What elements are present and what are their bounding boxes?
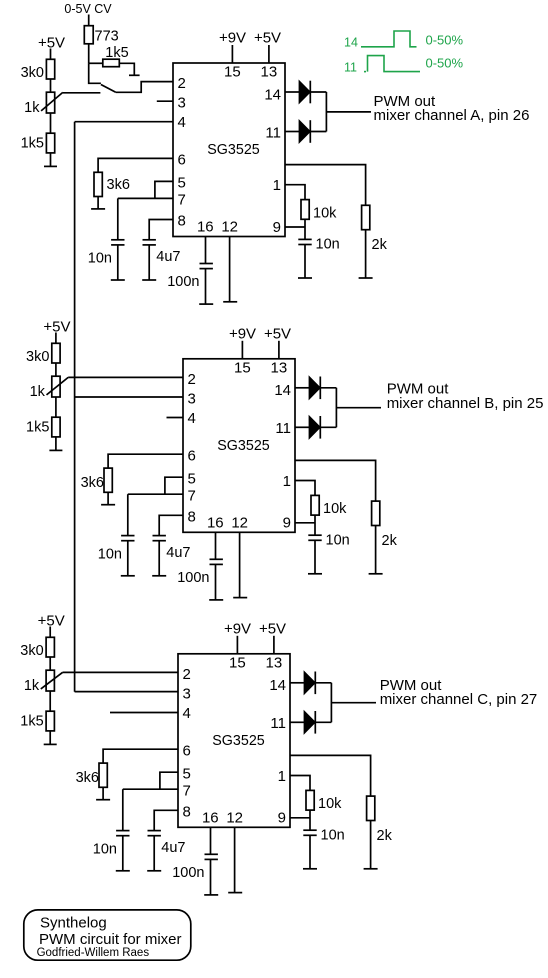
capacitor 100n (channel C) (205, 853, 218, 855)
svg-text:+9V: +9V (224, 620, 251, 637)
potentiometer 1k (channel C) (46, 670, 54, 691)
svg-text:13: 13 (261, 64, 278, 81)
wire (320, 387, 336, 389)
wire pin 11 (290, 721, 304, 723)
waveform pin 14 pulse (361, 31, 417, 47)
wire (310, 91, 326, 93)
potentiometer 1k wiper arrow (channel B) (47, 377, 69, 395)
resistor 2k (channel B) (372, 501, 380, 525)
wire (158, 541, 160, 576)
wire (117, 245, 119, 280)
svg-text:100n: 100n (177, 570, 209, 586)
wire CV bus to pin 3 (75, 396, 183, 398)
capacitor 100n (channel A) (200, 263, 213, 265)
ground (49, 449, 62, 451)
wire diode outputs join (335, 388, 337, 428)
wire diode outputs join (325, 92, 327, 132)
svg-text:10k: 10k (318, 796, 342, 812)
wire (55, 397, 57, 417)
svg-text:10n: 10n (326, 532, 350, 548)
wire (89, 62, 103, 64)
svg-text:mixer channel C, pin 27: mixer channel C, pin 27 (380, 691, 538, 708)
capacitor 4u7 (channel B) (153, 535, 166, 537)
wire (107, 492, 109, 504)
svg-text:1: 1 (283, 473, 291, 490)
resistor 3k6 (channel C) (99, 763, 107, 787)
wire wiper to switch (63, 92, 101, 94)
svg-text:1k5: 1k5 (105, 45, 128, 61)
potentiometer 1k wiper arrow (channel A) (41, 92, 63, 111)
ground (44, 743, 57, 745)
wire (50, 113, 52, 133)
wire (370, 821, 372, 869)
wire pin 1 (285, 185, 305, 200)
wire (320, 426, 336, 428)
svg-text:11: 11 (265, 124, 281, 141)
svg-text:2k: 2k (377, 828, 393, 844)
wire pin 14 (295, 387, 309, 389)
resistor 3k6 (channel A) (94, 172, 102, 196)
svg-text:100n: 100n (172, 865, 204, 881)
svg-text:1k5: 1k5 (26, 420, 49, 436)
capacitor 4u7 (channel A) (143, 239, 156, 241)
ground (364, 868, 378, 870)
ground (44, 165, 57, 167)
svg-text:16: 16 (202, 809, 219, 826)
svg-text:11: 11 (275, 420, 291, 437)
svg-text:10k: 10k (323, 501, 347, 517)
wire (315, 721, 331, 723)
resistor 2k (channel A) (362, 205, 370, 229)
potentiometer 1k (channel B) (52, 376, 60, 397)
svg-text:3: 3 (188, 390, 196, 407)
wire to 2k load (295, 460, 376, 501)
wire pin 13 to +5V (268, 45, 270, 63)
svg-text:12: 12 (231, 514, 248, 531)
svg-text:1: 1 (273, 177, 281, 194)
ground (147, 870, 161, 872)
svg-text:mixer channel B, pin 25: mixer channel B, pin 25 (387, 395, 544, 412)
svg-text:Synthelog: Synthelog (40, 914, 107, 931)
resistor 3k0 (channel C) (46, 637, 54, 657)
wire (50, 153, 52, 167)
wire (315, 682, 331, 684)
wire (375, 526, 377, 574)
svg-text:10n: 10n (321, 827, 345, 843)
ground (308, 573, 322, 575)
ground (152, 575, 166, 577)
svg-text:4: 4 (178, 114, 186, 131)
IC U2 SG3525 PWM controller (channel B) (183, 359, 295, 533)
ground (199, 303, 213, 305)
svg-text:8: 8 (188, 508, 196, 525)
diode (channel A pin 11 output) (299, 120, 310, 143)
wire pin 15 to +9V (231, 45, 233, 63)
svg-text:PWM circuit for mixer: PWM circuit for mixer (39, 931, 182, 948)
svg-text:14: 14 (264, 86, 281, 103)
wire pin 5 to pin 7 bridge (165, 477, 183, 494)
svg-text:10n: 10n (88, 251, 112, 267)
wire to 2k load (290, 755, 371, 796)
wire (304, 219, 306, 239)
wire pin 8 (159, 515, 183, 535)
wire pin 12 down (229, 237, 231, 302)
svg-text:10n: 10n (316, 237, 340, 253)
wire (55, 363, 57, 376)
potentiometer 1k (channel A) (46, 92, 54, 113)
wire (117, 198, 119, 239)
ground (111, 279, 125, 281)
svg-text:3k0: 3k0 (21, 65, 44, 81)
wire (314, 515, 316, 535)
wire (314, 540, 316, 574)
svg-text:12: 12 (221, 219, 238, 236)
wire pin 8 (149, 220, 173, 240)
svg-text:+9V: +9V (219, 30, 246, 47)
svg-text:+5V: +5V (264, 325, 291, 342)
diode (channel B pin 11 output) (309, 416, 320, 439)
svg-text:8: 8 (178, 213, 186, 230)
wire pin 4 stub (110, 712, 178, 714)
wire PWM output (336, 407, 381, 409)
svg-text:Godfried-Willem Raes: Godfried-Willem Raes (37, 947, 150, 959)
svg-text:4u7: 4u7 (156, 249, 180, 265)
wire (205, 269, 207, 305)
svg-text:9: 9 (283, 515, 291, 532)
wire pin 7 (118, 197, 173, 199)
svg-text:3k0: 3k0 (20, 643, 43, 659)
wire to 2k load (285, 165, 366, 206)
ground (101, 504, 115, 506)
ground (142, 279, 156, 281)
capacitor 10n (channel C pin 9) (303, 829, 316, 831)
wire pin 1 (295, 481, 315, 496)
wire pin 5 to pin 7 bridge (160, 772, 178, 789)
wire to switch contact (89, 63, 101, 83)
svg-text:1k: 1k (24, 100, 40, 116)
ground (369, 573, 383, 575)
svg-text:8: 8 (183, 803, 191, 820)
resistor 1k5 (CV pull-down) (103, 59, 120, 66)
wire (365, 230, 367, 278)
ground (204, 894, 218, 896)
svg-text:100n: 100n (167, 274, 199, 290)
ground (303, 868, 317, 870)
svg-text:4u7: 4u7 (161, 840, 185, 856)
wire pin 9 (285, 226, 305, 228)
svg-text:3k6: 3k6 (76, 770, 99, 786)
svg-text:+5V: +5V (43, 319, 70, 336)
svg-text:1k: 1k (30, 384, 46, 400)
IC U3 SG3525 PWM controller (channel C) (178, 654, 290, 828)
wire pin 6 (98, 158, 173, 172)
diode (channel C pin 14 output) (304, 672, 315, 695)
capacitor 10n (channel B pin 9) (308, 534, 321, 536)
svg-text:2k: 2k (382, 533, 398, 549)
svg-text:0-5V CV: 0-5V CV (64, 2, 112, 16)
resistor 2k (channel C) (367, 796, 375, 820)
wire (55, 437, 57, 451)
svg-text:14: 14 (274, 382, 291, 399)
wire pin 6 (103, 749, 178, 763)
wire pin 13 to +5V (273, 636, 275, 654)
svg-text:3k6: 3k6 (107, 177, 130, 193)
svg-text:2k: 2k (372, 237, 388, 253)
svg-text:1k5: 1k5 (21, 136, 44, 152)
svg-text:3k0: 3k0 (26, 349, 49, 365)
svg-text:0-50%: 0-50% (426, 56, 464, 71)
wire pin 12 down (234, 827, 236, 892)
wire (102, 787, 104, 799)
wire pin 14 (285, 91, 299, 93)
wire pin 1 (290, 776, 310, 791)
svg-text:5: 5 (183, 765, 191, 782)
resistor 1k5 (channel A divider) (46, 133, 54, 153)
wire (309, 835, 311, 869)
svg-text:2: 2 (183, 666, 191, 683)
wire (148, 245, 150, 280)
wire (50, 79, 52, 92)
ground (228, 892, 242, 894)
switch blade (CV select) (101, 85, 116, 93)
svg-text:4: 4 (183, 705, 191, 722)
svg-text:4: 4 (188, 410, 196, 427)
wire (49, 691, 51, 711)
svg-text:1: 1 (278, 768, 286, 785)
svg-text:3k6: 3k6 (81, 475, 104, 491)
svg-text:9: 9 (278, 810, 286, 827)
wire (119, 63, 134, 75)
svg-text:1k: 1k (24, 678, 40, 694)
ground (223, 301, 237, 303)
svg-text:5: 5 (178, 175, 186, 192)
wire pin 16 down (215, 532, 217, 559)
ground (129, 74, 140, 76)
svg-text:3: 3 (178, 95, 186, 112)
wire wiper to pin 2 (63, 671, 179, 673)
wire pin 7 (123, 788, 178, 790)
svg-text:6: 6 (188, 447, 196, 464)
wire pin 14 (290, 682, 304, 684)
capacitor 10n (channel A timing) (111, 239, 124, 241)
svg-text:16: 16 (197, 219, 214, 236)
svg-text:+5V: +5V (38, 613, 65, 630)
svg-text:13: 13 (271, 359, 288, 376)
svg-text:10k: 10k (313, 205, 337, 221)
wire (49, 731, 51, 745)
svg-text:5: 5 (188, 470, 196, 487)
resistor 3k0 (channel A) (46, 59, 54, 79)
wire (309, 810, 311, 830)
resistor 1k5 (channel C divider) (46, 711, 54, 731)
svg-text:+5V: +5V (259, 620, 286, 637)
waveform pin 11 pulse (364, 71, 366, 73)
svg-text:1k5: 1k5 (20, 714, 43, 730)
wire pin 9 (290, 817, 310, 819)
resistor 10k (channel B) (311, 495, 319, 515)
wire pin 16 down (210, 827, 212, 854)
svg-text:11: 11 (270, 715, 286, 732)
svg-text:+5V: +5V (38, 35, 65, 52)
wire pin 15 to +9V (241, 341, 243, 359)
svg-text:773: 773 (95, 28, 119, 44)
wire CV bus down to channels B and C (74, 122, 76, 692)
wire pin 11 (295, 426, 309, 428)
svg-text:+5V: +5V (254, 30, 281, 47)
wire pin 4 stub (167, 417, 184, 419)
wire (210, 859, 212, 895)
wire PWM output (331, 702, 376, 704)
svg-text:7: 7 (188, 487, 196, 504)
svg-text:4u7: 4u7 (166, 545, 190, 561)
svg-text:11: 11 (344, 61, 357, 75)
svg-text:14: 14 (269, 677, 286, 694)
svg-text:15: 15 (234, 359, 251, 376)
wire (97, 197, 99, 209)
wire (88, 15, 90, 26)
wire pin 4 (75, 121, 173, 123)
svg-text:mixer channel A, pin 26: mixer channel A, pin 26 (374, 107, 530, 124)
IC U1 SG3525 PWM controller (channel A) (173, 63, 285, 237)
wire pin 16 down (205, 237, 207, 264)
svg-text:+9V: +9V (229, 325, 256, 342)
svg-text:7: 7 (178, 192, 186, 209)
wire pin 5 to pin 7 bridge (155, 181, 173, 198)
svg-text:SG3525: SG3525 (212, 733, 265, 749)
wire PWM output (326, 111, 371, 113)
wire switch pole to pin 2 (116, 82, 173, 93)
svg-text:SG3525: SG3525 (207, 142, 260, 158)
ground (359, 277, 373, 279)
ground (298, 277, 312, 279)
wire (50, 49, 52, 60)
wire (304, 245, 306, 279)
wire (127, 541, 129, 576)
svg-text:6: 6 (178, 152, 186, 169)
svg-text:13: 13 (266, 654, 283, 671)
wire (122, 789, 124, 830)
svg-text:0-50%: 0-50% (426, 33, 464, 48)
svg-text:2: 2 (188, 371, 196, 388)
resistor 3k6 (channel B) (104, 468, 112, 492)
wire (215, 564, 217, 600)
wire pin 12 down (239, 532, 241, 597)
resistor 3k0 (channel B) (52, 343, 60, 363)
svg-text:3: 3 (183, 685, 191, 702)
wire (49, 627, 51, 638)
ground (233, 597, 247, 599)
resistor 10k (channel C) (306, 790, 314, 810)
svg-text:10n: 10n (98, 546, 122, 562)
diode (channel B pin 14 output) (309, 377, 320, 400)
ground (96, 799, 110, 801)
wire pin 13 to +5V (278, 341, 280, 359)
svg-text:15: 15 (229, 654, 246, 671)
ground (116, 870, 130, 872)
svg-text:12: 12 (226, 809, 243, 826)
wire (153, 836, 155, 871)
svg-text:7: 7 (183, 782, 191, 799)
wire (310, 131, 326, 133)
capacitor 10n (channel A pin 9) (298, 238, 311, 240)
wire pin 11 (285, 131, 299, 133)
capacitor 100n (channel B) (210, 558, 223, 560)
resistor 773 (CV input) (84, 26, 93, 44)
ground (91, 208, 105, 210)
wire pin 15 to +9V (236, 636, 238, 654)
wire pin 3 stub (157, 100, 173, 102)
wire diode outputs join (330, 683, 332, 723)
wire pin 8 (154, 810, 178, 830)
wire (55, 333, 57, 344)
wire pin 9 (295, 522, 315, 524)
svg-text:9: 9 (273, 219, 281, 236)
svg-text:SG3525: SG3525 (217, 438, 270, 454)
wire wiper to pin 2 (68, 376, 183, 378)
svg-text:15: 15 (224, 64, 241, 81)
node title box Synthelog (24, 910, 191, 960)
wire (88, 44, 90, 64)
diode (channel C pin 11 output) (304, 711, 315, 734)
wire pin 6 (108, 454, 183, 468)
ground (121, 575, 135, 577)
wire CV bus to pin 3 (75, 691, 178, 693)
resistor 10k (channel A) (301, 200, 309, 220)
capacitor 4u7 (channel C) (148, 830, 161, 832)
svg-text:2: 2 (178, 75, 186, 92)
svg-text:10n: 10n (93, 841, 117, 857)
resistor 1k5 (channel B divider) (52, 417, 60, 437)
svg-text:6: 6 (183, 742, 191, 759)
svg-text:16: 16 (207, 514, 224, 531)
wire (122, 836, 124, 871)
ground (209, 599, 223, 601)
wire (127, 494, 129, 535)
potentiometer 1k wiper arrow (channel C) (41, 672, 63, 689)
capacitor 10n (channel B timing) (121, 535, 134, 537)
svg-text:14: 14 (344, 36, 358, 50)
capacitor 10n (channel C timing) (116, 830, 129, 832)
diode (channel A pin 14 output) (299, 81, 310, 104)
wire (49, 657, 51, 670)
wire pin 7 (128, 493, 183, 495)
